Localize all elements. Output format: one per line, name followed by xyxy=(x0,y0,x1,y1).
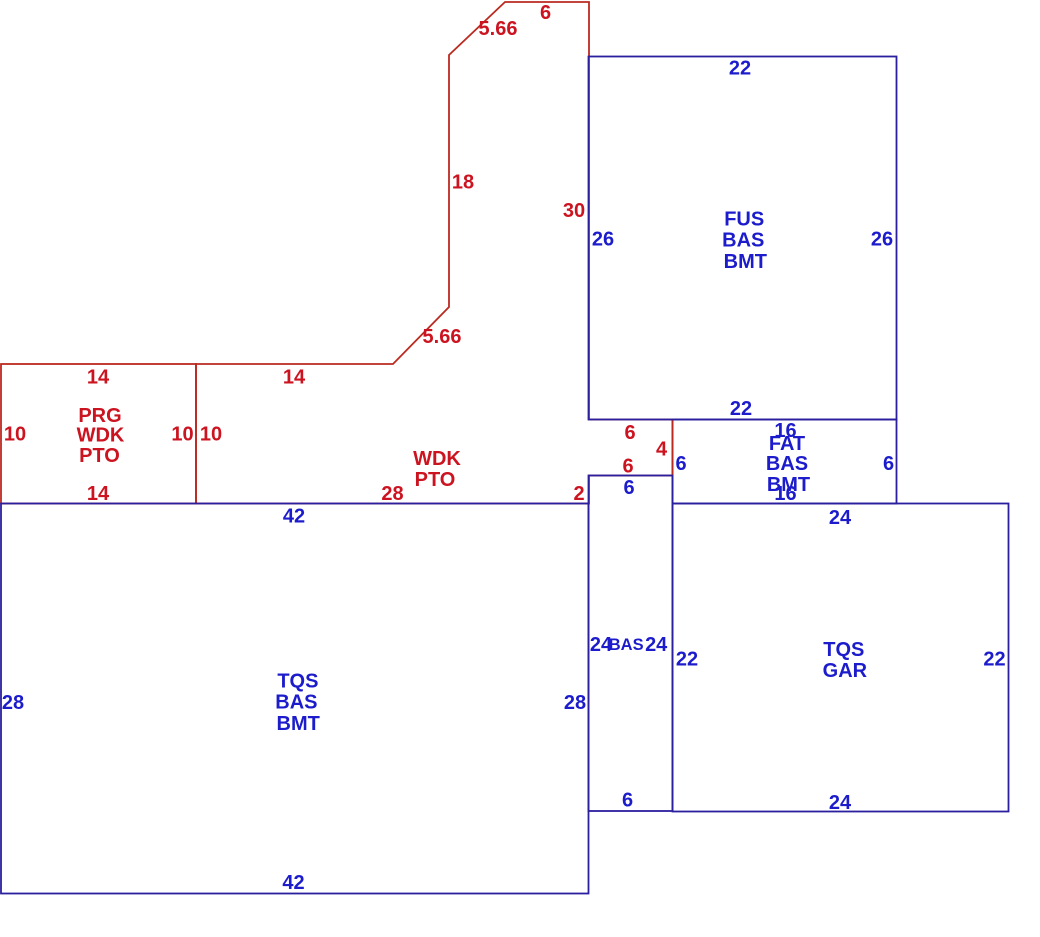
svg-text:22: 22 xyxy=(729,58,751,80)
svg-text:BAS: BAS xyxy=(609,636,644,654)
svg-text:6: 6 xyxy=(624,422,635,444)
svg-text:6: 6 xyxy=(622,789,633,811)
svg-text:16: 16 xyxy=(774,483,796,505)
svg-text:14: 14 xyxy=(283,366,306,388)
svg-text:2: 2 xyxy=(573,483,584,505)
svg-text:22: 22 xyxy=(676,648,698,670)
svg-text:42: 42 xyxy=(282,872,304,894)
svg-text:28: 28 xyxy=(564,692,586,714)
svg-text:28: 28 xyxy=(2,692,24,714)
svg-text:42: 42 xyxy=(283,505,305,527)
svg-text:18: 18 xyxy=(452,171,474,193)
svg-text:BMT: BMT xyxy=(724,251,767,273)
area PRG WDK PTO outline xyxy=(1,364,196,504)
svg-text:24: 24 xyxy=(829,792,852,814)
svg-text:30: 30 xyxy=(563,200,585,222)
svg-text:BAS: BAS xyxy=(722,230,764,252)
svg-text:6: 6 xyxy=(622,455,633,477)
svg-text:FAT: FAT xyxy=(769,433,805,455)
svg-text:FUS: FUS xyxy=(724,209,764,231)
svg-text:TQS: TQS xyxy=(277,671,318,693)
svg-text:14: 14 xyxy=(87,366,110,388)
svg-text:22: 22 xyxy=(983,648,1005,670)
svg-text:6: 6 xyxy=(883,453,894,475)
svg-text:26: 26 xyxy=(592,229,614,251)
svg-text:5.66: 5.66 xyxy=(423,326,462,348)
svg-text:BAS: BAS xyxy=(275,692,317,714)
area BAS strip outline xyxy=(589,476,673,812)
svg-text:4: 4 xyxy=(656,438,668,460)
svg-text:BAS: BAS xyxy=(766,453,808,475)
svg-text:10: 10 xyxy=(200,423,222,445)
svg-text:GAR: GAR xyxy=(823,660,868,682)
area FUS BAS BMT outline xyxy=(589,57,897,420)
area TQS BAS BMT outline xyxy=(1,504,589,894)
svg-text:10: 10 xyxy=(171,423,193,445)
svg-text:6: 6 xyxy=(675,453,686,475)
area FAT BAS BMT outline xyxy=(673,420,897,504)
svg-text:BMT: BMT xyxy=(277,713,320,735)
svg-text:6: 6 xyxy=(540,2,551,24)
svg-text:WDK: WDK xyxy=(413,448,461,470)
area WDK PTO outline xyxy=(196,2,673,504)
svg-text:WDK: WDK xyxy=(77,424,125,446)
svg-text:PTO: PTO xyxy=(79,445,120,467)
svg-text:28: 28 xyxy=(381,483,403,505)
svg-text:6: 6 xyxy=(623,477,634,499)
svg-text:14: 14 xyxy=(87,483,110,505)
area TQS GAR outline xyxy=(673,504,1009,812)
svg-text:24: 24 xyxy=(829,507,852,529)
svg-text:24: 24 xyxy=(645,634,668,656)
svg-text:PTO: PTO xyxy=(415,469,456,491)
svg-text:TQS: TQS xyxy=(823,639,864,661)
svg-text:10: 10 xyxy=(4,423,26,445)
svg-text:5.66: 5.66 xyxy=(479,18,518,40)
svg-text:26: 26 xyxy=(871,229,893,251)
svg-text:22: 22 xyxy=(730,398,752,420)
